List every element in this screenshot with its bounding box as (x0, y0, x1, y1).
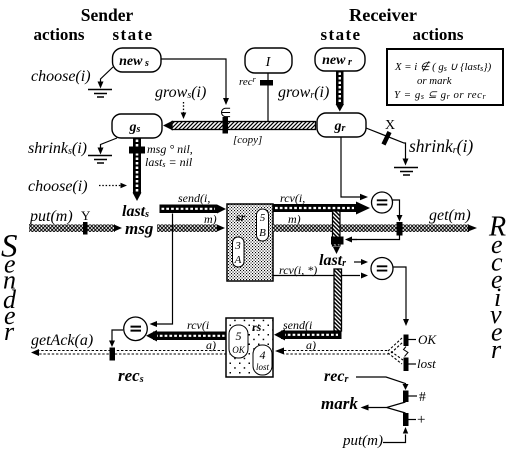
svg-text:5: 5 (260, 212, 266, 224)
svg-text:Y = gs ⊆ gr or recr: Y = gs ⊆ gr or recr (394, 89, 486, 101)
svg-text:m): m) (204, 212, 217, 226)
ground G3 (394, 168, 418, 176)
tick X (diagonal) (384, 132, 390, 145)
svg-text:lastr: lastr (319, 252, 346, 269)
capsule 5OK (229, 325, 248, 358)
channel ack left (37, 351, 226, 355)
tick rec_s (110, 348, 116, 361)
svg-text:rcv(i: rcv(i (187, 318, 209, 332)
wire g_r to eq1 (341, 137, 360, 197)
svg-text:get(m): get(m) (429, 207, 471, 224)
capsule 5B (257, 209, 269, 241)
svg-text:sr: sr (235, 210, 246, 224)
svg-text:shrinks(i): shrinks(i) (28, 140, 87, 157)
tick lost (404, 358, 409, 372)
tick + (403, 413, 409, 426)
svg-text:Sender: Sender (81, 5, 134, 25)
svg-text:4: 4 (260, 348, 266, 362)
arrow last_r to eq2 (354, 261, 361, 263)
wire eq1 to get tick (393, 200, 400, 216)
place new_r (315, 48, 365, 71)
svg-text:+: + (417, 412, 425, 428)
transition bar rcv (sr to =) (273, 204, 357, 212)
place new_s (113, 48, 162, 72)
svg-text:choose(i): choose(i) (31, 68, 91, 85)
svg-text:lasts = nil: lasts = nil (145, 155, 193, 169)
svg-text:lost: lost (417, 356, 436, 371)
wire new_s to ground1 (101, 67, 114, 82)
svg-text:X: X (385, 118, 395, 133)
channel sr to get (273, 224, 469, 232)
svg-text:actions: actions (34, 25, 85, 44)
svg-text:A: A (234, 254, 242, 266)
transition bar copy (horizontal hatched) (163, 121, 173, 131)
capsule 3A (233, 237, 245, 267)
svg-text:m): m) (288, 212, 301, 226)
svg-text:Y: Y (81, 208, 91, 223)
zigzag choice (404, 347, 409, 357)
wire send bar down to eq3 (156, 214, 173, 325)
wire new_s to copy bar (161, 59, 226, 98)
svg-text:state: state (321, 25, 362, 44)
dotted arrow choose2 (99, 185, 121, 187)
svg-text:5: 5 (236, 329, 242, 343)
wire sr to eq2 (274, 275, 361, 277)
svg-text:growr(i): growr(i) (278, 84, 329, 101)
tick on copy bar (223, 117, 229, 134)
svg-text:msg ° nil,: msg ° nil, (147, 142, 193, 156)
tick OK (404, 335, 409, 347)
transition bar last_r L-shape (334, 269, 342, 331)
transition bar rcv ack (153, 332, 226, 341)
svg-text:a): a) (206, 338, 216, 352)
ground G1 (88, 90, 112, 98)
svg-text:or mark: or mark (417, 75, 452, 87)
svg-text:a): a) (306, 338, 316, 352)
junction square (331, 237, 344, 245)
legend box (387, 49, 503, 105)
wire put(m) to + (383, 436, 406, 443)
svg-text:state: state (113, 25, 154, 44)
svg-text:OK: OK (418, 332, 437, 347)
svg-text:3: 3 (234, 240, 241, 252)
svg-text:[copy]: [copy] (233, 134, 262, 146)
svg-text:choose(i): choose(i) (28, 178, 88, 195)
transition bar v1 (below rcv) (333, 211, 341, 246)
svg-text:r: r (491, 335, 502, 364)
svg-text:shrinkr(i): shrinkr(i) (409, 136, 473, 156)
op eq3 (124, 317, 148, 341)
channel put to msg (29, 224, 115, 232)
ground G2 (88, 156, 112, 164)
wire eq3 to rec_s tick (112, 330, 123, 341)
tick Y (83, 222, 88, 235)
svg-text:getAck(a): getAck(a) (31, 332, 93, 349)
op eq2 (371, 258, 393, 280)
wire eq2 down to OK (393, 267, 406, 320)
channel msg to sr (157, 224, 217, 232)
side text Receiver (488, 212, 506, 365)
op eq1 (372, 192, 393, 213)
dotted arrow grows (183, 102, 185, 113)
tick rec^r (260, 80, 273, 86)
arrow into junction (351, 239, 357, 241)
wire rec_r to # (356, 377, 406, 385)
svg-text:B: B (259, 227, 266, 239)
place g_s (112, 114, 162, 138)
svg-text:Receiver: Receiver (349, 5, 417, 25)
svg-text:r: r (4, 317, 15, 346)
wire g_s to ground2 (101, 138, 118, 148)
svg-text:OK: OK (232, 345, 245, 355)
svg-text:msg: msg (125, 219, 154, 238)
transition bar new_r (vertical hatched) (336, 71, 344, 105)
svg-text:actions: actions (413, 25, 464, 44)
side text Sender (1, 229, 18, 347)
dashed arrow into rs (275, 348, 284, 355)
svg-text:lost: lost (256, 362, 270, 372)
wire g_r to ground3 (366, 128, 406, 160)
place g_r (317, 113, 366, 137)
svg-text:put(m): put(m) (29, 208, 73, 225)
place I (245, 48, 292, 73)
box rs (226, 318, 273, 377)
tick get (397, 222, 403, 236)
svg-text:put(m): put(m) (342, 433, 383, 449)
transition bar g_s down (vertical hatched) (133, 138, 141, 193)
transition bar send (160, 205, 218, 214)
svg-text:#: # (419, 389, 426, 404)
svg-text:rcv(i,: rcv(i, (280, 191, 305, 205)
box sr (227, 204, 273, 281)
channel ack right (284, 338, 403, 364)
capsule 4lost (253, 345, 272, 375)
svg-text:X = i ∉ ( gs ∪ {lasts}): X = i ∉ ( gs ∪ {lasts}) (394, 60, 492, 73)
tick # (403, 391, 409, 403)
svg-text:lasts: lasts (122, 203, 149, 220)
svg-text:send(i,: send(i, (178, 191, 210, 205)
wire mark fan (368, 402, 406, 413)
wire get tick to junction (351, 236, 400, 240)
tick on g_s bar (129, 147, 145, 154)
svg-text:rs: rs (252, 320, 262, 334)
svg-text:send(i: send(i (283, 318, 312, 332)
svg-text:mark: mark (321, 394, 358, 413)
wire I down (267, 73, 269, 121)
svg-text:grows(i): grows(i) (155, 84, 206, 101)
